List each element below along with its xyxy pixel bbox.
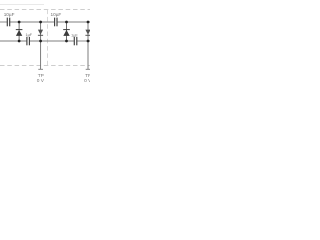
svg-text:10µF: 10µF: [51, 12, 62, 17]
svg-text:0 V: 0 V: [37, 78, 45, 84]
svg-text:10µF: 10µF: [4, 12, 15, 17]
svg-text:0 V: 0 V: [84, 78, 90, 84]
svg-text:1µF: 1µF: [71, 33, 78, 37]
svg-text:1µF: 1µF: [26, 33, 33, 37]
